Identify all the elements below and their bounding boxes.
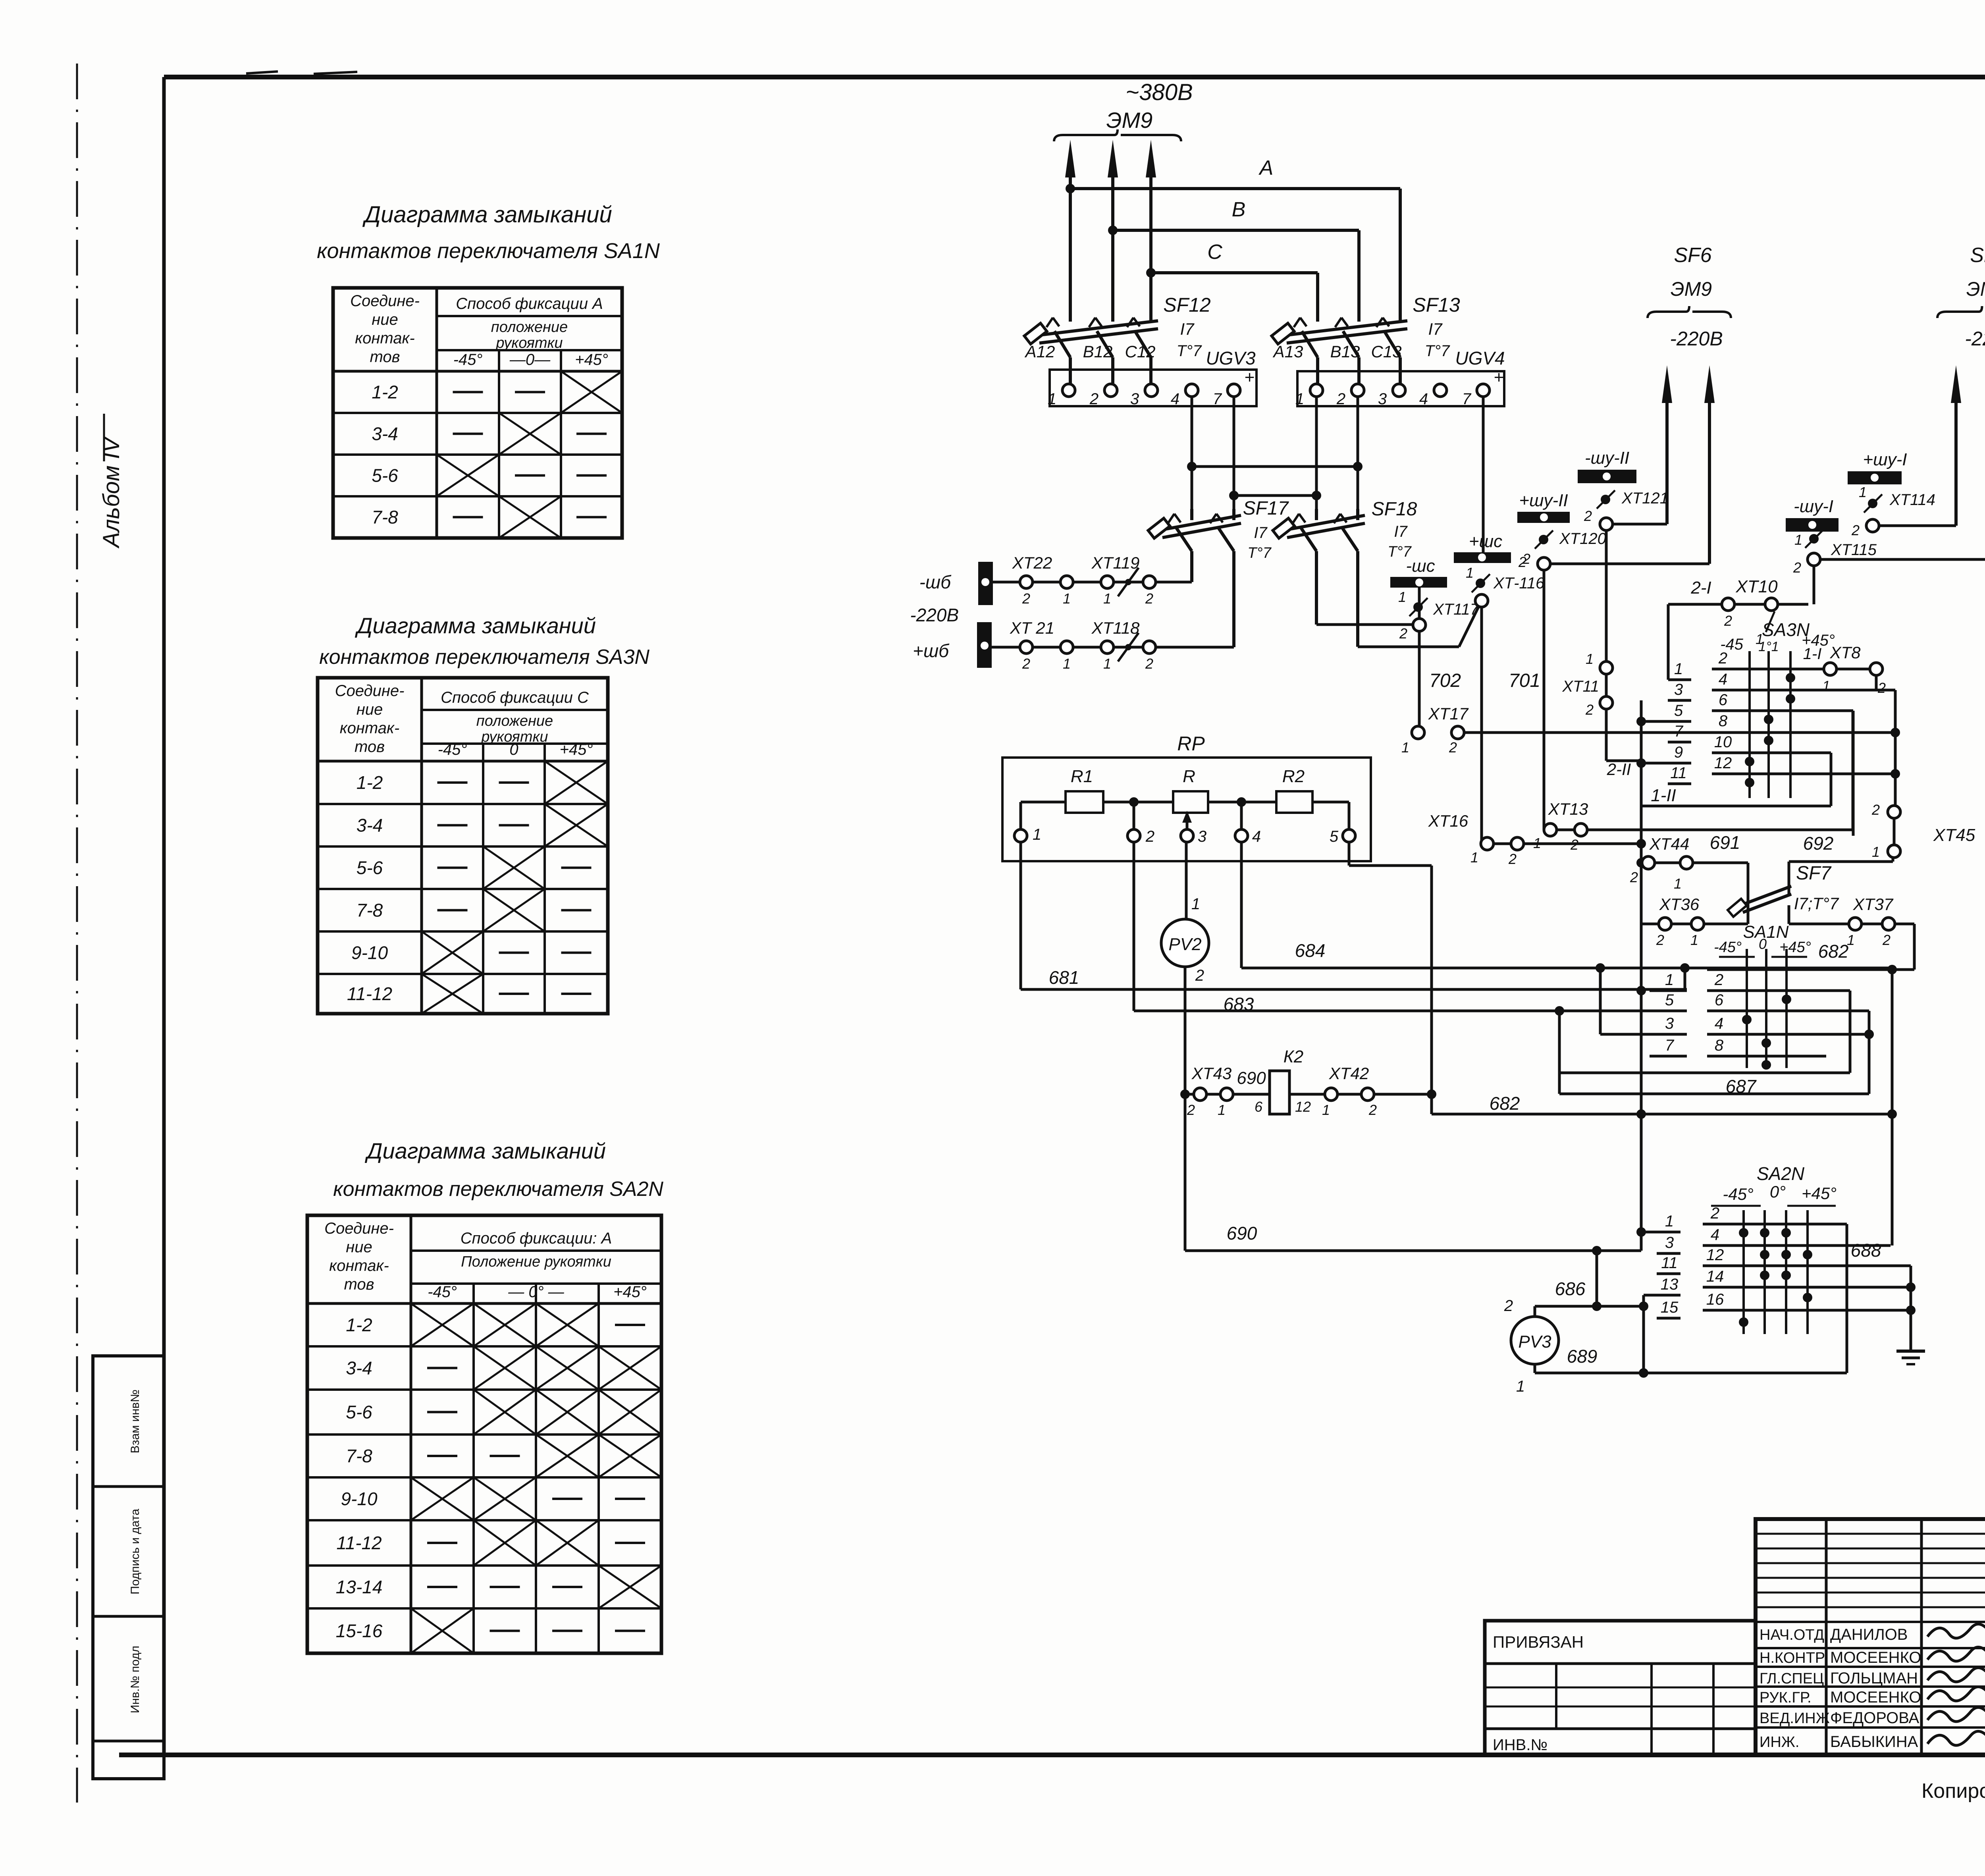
svg-text:ние: ние <box>372 311 398 328</box>
svg-text:1: 1 <box>1063 656 1071 672</box>
wire 691 to SF7 <box>1747 863 1750 893</box>
SA3N row 11-12 <box>1712 773 1895 775</box>
title block left table columns <box>1825 1519 1828 1755</box>
svg-text:В12: В12 <box>1083 342 1113 361</box>
UGV3 terminal 4 <box>1185 384 1198 397</box>
UGV3 terminal 3 <box>1145 384 1158 397</box>
svg-text:2: 2 <box>1630 869 1638 885</box>
svg-text:2: 2 <box>1195 967 1204 984</box>
resistor block RP outline <box>1002 758 1371 861</box>
svg-text:692: 692 <box>1803 833 1834 854</box>
wire SF18 left pole to ХТ117 <box>1316 623 1414 626</box>
svg-text:2: 2 <box>1187 1102 1195 1118</box>
svg-text:1: 1 <box>1822 678 1830 694</box>
table header lines <box>437 315 622 317</box>
svg-text:ХТ-116: ХТ-116 <box>1493 575 1545 592</box>
svg-text:4: 4 <box>1715 1015 1723 1032</box>
wire 701 vertical <box>1480 606 1483 844</box>
SA1N row2 drop to 687 <box>1849 991 1852 1073</box>
svg-text:13: 13 <box>1661 1276 1679 1293</box>
svg-text:2: 2 <box>1145 590 1153 607</box>
svg-text:0: 0 <box>509 741 518 758</box>
svg-text:ние: ние <box>357 701 383 718</box>
svg-text:Соедине-: Соедине- <box>335 682 405 700</box>
svg-text:2-II: 2-II <box>1607 760 1631 779</box>
svg-text:11-12: 11-12 <box>347 983 392 1004</box>
SA2N rows <box>1657 1231 1681 1234</box>
svg-text:ХТ118: ХТ118 <box>1091 619 1140 637</box>
svg-text:3: 3 <box>1198 828 1206 845</box>
wire B drop to SF13 <box>1357 230 1361 322</box>
svg-text:1: 1 <box>1401 739 1409 756</box>
title block thin rows top <box>1756 1533 1985 1535</box>
svg-text:15-16: 15-16 <box>336 1621 383 1641</box>
svg-text:2: 2 <box>1399 625 1407 642</box>
svg-text:1: 1 <box>1872 844 1880 860</box>
svg-text:2: 2 <box>1793 559 1801 576</box>
svg-text:Диаграмма замыканий: Диаграмма замыканий <box>355 613 596 638</box>
svg-text:1: 1 <box>1103 590 1111 607</box>
UGV4 terminal 2 <box>1351 384 1364 397</box>
svg-text:Положение рукоятки: Положение рукоятки <box>461 1253 611 1270</box>
wire B <box>1113 229 1359 232</box>
svg-text:9: 9 <box>1674 744 1683 761</box>
SA3N left stubs <box>1668 699 1691 702</box>
svg-text:684: 684 <box>1295 940 1326 961</box>
svg-text:2: 2 <box>1656 932 1664 948</box>
title block signature rows <box>1756 1621 1985 1623</box>
UGV3 terminal 7 <box>1228 384 1240 397</box>
svg-text:ХТ36: ХТ36 <box>1659 895 1700 914</box>
terminal ХТ119 <box>1101 576 1114 588</box>
wire from RP-5 <box>1348 841 1351 866</box>
svg-text:UGV3: UGV3 <box>1206 348 1256 368</box>
resistor R <box>1173 791 1208 813</box>
svg-text:T°7: T°7 <box>1425 342 1450 360</box>
circuit breaker SF7 <box>1747 893 1750 924</box>
svg-text:+шу-I: +шу-I <box>1863 450 1907 469</box>
wire branch to UGV4-1 <box>1234 494 1316 497</box>
UGV4 terminal 7 <box>1477 384 1490 397</box>
svg-text:Взам инв№: Взам инв№ <box>129 1390 142 1454</box>
svg-text:контак-: контак- <box>340 719 399 737</box>
SA3N moving contact lines <box>1748 651 1751 798</box>
table column lines <box>436 288 438 538</box>
svg-text:-45°: -45° <box>1714 939 1742 956</box>
svg-text:SF18: SF18 <box>1372 499 1417 520</box>
loop wire below 687 <box>1559 1093 1869 1095</box>
drawing frame border <box>164 75 1985 79</box>
wire C <box>1151 271 1318 274</box>
svg-text:2: 2 <box>1022 590 1030 607</box>
svg-text:1: 1 <box>1033 826 1041 843</box>
circuit breaker SF13 <box>1287 329 1407 343</box>
svg-text:ХТ22: ХТ22 <box>1012 553 1052 572</box>
SA2N closure dots <box>1739 1228 1748 1238</box>
svg-text:7: 7 <box>1462 390 1472 408</box>
wire 692 <box>1789 860 1893 863</box>
svg-text:-220В: -220В <box>1670 328 1723 350</box>
wire ХТ115 to SF5 right arrow <box>1819 558 1985 561</box>
svg-text:ДАНИЛОВ: ДАНИЛОВ <box>1830 1626 1908 1643</box>
svg-text:контактов переключателя SA3N: контактов переключателя SA3N <box>319 646 649 669</box>
svg-text:5-6: 5-6 <box>357 858 383 878</box>
svg-text:1-II: 1-II <box>1651 786 1676 805</box>
svg-text:-45°: -45° <box>453 351 483 368</box>
SA1N rows <box>1650 989 1687 992</box>
svg-text:+шс: +шс <box>1469 532 1502 551</box>
table outer border <box>333 288 622 538</box>
svg-text:1-I: 1-I <box>1803 645 1822 663</box>
svg-text:ИНВ.№: ИНВ.№ <box>1493 1736 1548 1754</box>
svg-text:1: 1 <box>1586 651 1594 667</box>
svg-text:ИНЖ.: ИНЖ. <box>1760 1734 1799 1751</box>
svg-text:7: 7 <box>1665 1037 1675 1054</box>
svg-text:10: 10 <box>1714 733 1732 751</box>
svg-text:7-8: 7-8 <box>346 1446 372 1466</box>
resistor R2 <box>1276 791 1312 813</box>
terminal ХТ22 <box>1020 576 1033 588</box>
svg-text:16: 16 <box>1706 1291 1724 1308</box>
svg-text:ХТ 21: ХТ 21 <box>1010 619 1054 637</box>
SA3N row 3-4 and ХТ8 drop <box>1875 675 1878 690</box>
svg-text:4: 4 <box>1419 390 1428 408</box>
svg-text:12: 12 <box>1295 1099 1311 1115</box>
svg-text:3-4: 3-4 <box>357 815 383 836</box>
UGV4 terminal 1 <box>1310 384 1323 397</box>
svg-text:1: 1 <box>1470 849 1478 866</box>
svg-text:Способ фиксации С: Способ фиксации С <box>441 689 589 706</box>
brace SF6 <box>1648 312 1731 318</box>
svg-text:ГОЛЬЦМАН: ГОЛЬЦМАН <box>1830 1670 1918 1687</box>
svg-text:1: 1 <box>1218 1102 1226 1118</box>
svg-text:ХТ11: ХТ11 <box>1562 678 1599 695</box>
svg-text:— 0° —: — 0° — <box>508 1283 564 1301</box>
svg-text:3: 3 <box>1674 681 1683 698</box>
wire 684 drop to SA1N <box>1684 968 1686 991</box>
svg-text:2: 2 <box>1585 702 1594 718</box>
voltmeter PV3 <box>1511 1317 1559 1364</box>
svg-text:Альбом IV: Альбом IV <box>98 435 124 549</box>
svg-text:11: 11 <box>1670 764 1687 782</box>
svg-text:С13: С13 <box>1371 342 1401 361</box>
svg-text:ХТ42: ХТ42 <box>1329 1064 1369 1083</box>
svg-text:15: 15 <box>1661 1299 1679 1316</box>
wire UGV4-2 link <box>1192 465 1358 468</box>
svg-text:1: 1 <box>1295 390 1304 408</box>
terminal strip UGV3 <box>1050 370 1257 406</box>
svg-text:7: 7 <box>1213 390 1222 408</box>
svg-text:1: 1 <box>1859 484 1867 500</box>
wire K2 row <box>1185 1093 1270 1096</box>
wire UGV3-7 down to SF17 right <box>1233 397 1235 509</box>
svg-text:SF13: SF13 <box>1413 294 1460 316</box>
svg-text:ХТ120: ХТ120 <box>1559 530 1606 548</box>
table outer border <box>307 1215 661 1653</box>
svg-text:ХТ43: ХТ43 <box>1191 1064 1231 1083</box>
svg-text:9-10: 9-10 <box>341 1488 377 1509</box>
svg-text:681: 681 <box>1049 967 1079 988</box>
svg-text:ЭМ9: ЭМ9 <box>1106 108 1153 133</box>
terminal ХТ44 <box>1641 862 1748 864</box>
svg-text:A: A <box>1258 156 1274 179</box>
svg-text:686: 686 <box>1555 1278 1586 1299</box>
wire ХТ121 down to ХТ11 <box>1605 530 1608 662</box>
SA3N row 1-2 <box>1712 668 1824 671</box>
SA3N stub 5 extended <box>1641 720 1691 723</box>
RP terminal 2 <box>1127 829 1140 842</box>
svg-text:SA2N: SA2N <box>1757 1163 1805 1184</box>
wire ХТ115 down to ХТ10 <box>1813 565 1815 604</box>
svg-text:690: 690 <box>1227 1223 1257 1244</box>
svg-text:Соедине-: Соедине- <box>324 1220 394 1237</box>
bus bar -шб <box>978 562 993 605</box>
svg-text:ХТ8: ХТ8 <box>1829 643 1861 662</box>
circuit breaker SF6 arrows <box>1665 381 1669 524</box>
svg-text:С12: С12 <box>1125 342 1155 361</box>
RP terminal 4 <box>1235 829 1248 842</box>
svg-text:682: 682 <box>1818 941 1849 962</box>
svg-text:1: 1 <box>1674 660 1683 678</box>
svg-text:-220В: -220В <box>1965 328 1985 350</box>
svg-text:3: 3 <box>1665 1234 1674 1251</box>
svg-text:5-6: 5-6 <box>372 465 398 486</box>
svg-text:~380В: ~380В <box>1125 79 1193 105</box>
svg-text:Соедине-: Соедине- <box>350 292 420 310</box>
SA1N row6 drop <box>1868 1011 1871 1094</box>
svg-text:-45°: -45° <box>1723 1185 1754 1203</box>
left feeder vertical <box>1640 700 1643 1251</box>
wire 682 lower run <box>1432 1113 1892 1116</box>
svg-text:5: 5 <box>1330 828 1339 845</box>
svg-text:ХТ13: ХТ13 <box>1548 800 1588 818</box>
svg-text:702: 702 <box>1429 670 1461 691</box>
svg-text:+шб: +шб <box>913 640 950 661</box>
svg-text:2: 2 <box>1336 390 1345 408</box>
SA1N header bars <box>1719 956 1755 958</box>
svg-text:В13: В13 <box>1330 342 1360 361</box>
wire ХТ37 corner down to 682 <box>1913 924 1916 970</box>
svg-text:Инв.№ подл: Инв.№ подл <box>129 1646 142 1713</box>
table column lines <box>420 678 423 1014</box>
svg-text:7-8: 7-8 <box>357 900 383 921</box>
wire 690 riser to 686 <box>1596 1251 1598 1306</box>
svg-text:14: 14 <box>1706 1268 1724 1285</box>
wire 2-I with ХТ10 <box>1668 603 1808 606</box>
relay coil K2 <box>1270 1071 1289 1114</box>
UGV4 terminal 4 <box>1434 384 1447 397</box>
svg-text:I7: I7 <box>1394 523 1408 540</box>
svg-text:SF12: SF12 <box>1163 294 1211 316</box>
bus bar +шс <box>1454 552 1511 563</box>
RP terminal 1 <box>1014 829 1027 842</box>
svg-text:1-2: 1-2 <box>357 772 383 793</box>
svg-text:2: 2 <box>1145 656 1153 672</box>
svg-text:ХТ119: ХТ119 <box>1091 553 1140 572</box>
wire ХТ121 to SF6 left arrow <box>1612 523 1667 526</box>
wire ХТ114 to SF5 left arrow <box>1878 524 1956 527</box>
svg-text:691: 691 <box>1710 832 1740 853</box>
terminal ХТ120 <box>1539 535 1548 544</box>
svg-text:5-6: 5-6 <box>346 1402 372 1423</box>
svg-text:контак-: контак- <box>355 330 414 347</box>
svg-text:2: 2 <box>1368 1102 1377 1118</box>
svg-text:11-12: 11-12 <box>336 1533 382 1553</box>
table column lines <box>410 1215 412 1653</box>
table row lines <box>307 1345 661 1348</box>
svg-text:ХТ117: ХТ117 <box>1433 601 1480 618</box>
svg-text:+45°: +45° <box>1802 1184 1837 1203</box>
svg-text:2: 2 <box>1851 522 1860 538</box>
wire ХТ11 column <box>1600 661 1613 674</box>
svg-text:ХТ114: ХТ114 <box>1889 491 1935 509</box>
svg-text:2: 2 <box>1089 390 1098 408</box>
SA3N row6 right drop <box>1852 711 1855 836</box>
wire 683 from RP-2 <box>1133 841 1135 1011</box>
wire 683 drop to 687 <box>1558 1011 1561 1094</box>
svg-text:положение: положение <box>491 319 568 335</box>
terminal ХТ42 <box>1289 1093 1431 1096</box>
RP terminal 5 <box>1343 829 1355 842</box>
svg-text:1: 1 <box>1398 589 1406 605</box>
node A junction <box>1066 184 1075 193</box>
svg-text:1: 1 <box>1665 1213 1674 1230</box>
circuit breaker SF12 <box>1039 329 1158 343</box>
svg-text:—0—: —0— <box>509 351 551 368</box>
wire 687 <box>1559 1072 1850 1074</box>
svg-text:I7: I7 <box>1428 320 1443 338</box>
terminal ХТ43 <box>1194 1088 1206 1101</box>
wire 689 <box>1534 1363 1536 1373</box>
wire 2-I drop to SA3N contact 1 <box>1667 604 1670 680</box>
svg-text:6: 6 <box>1715 991 1724 1009</box>
wire 686 riser to SA2N 13 <box>1642 1295 1645 1373</box>
UGV3 terminal 2 <box>1104 384 1117 397</box>
svg-text:I7: I7 <box>1180 320 1195 338</box>
node B junction <box>1108 226 1118 235</box>
wire 684 to SA1N row 3-4 <box>1599 968 1602 1034</box>
brace under supply label <box>1054 135 1181 141</box>
svg-text:контак-: контак- <box>329 1257 389 1274</box>
svg-text:2: 2 <box>1714 971 1723 989</box>
wire -шб to SF17 <box>993 581 1192 584</box>
circuit breaker SF5 arrows <box>1954 381 1958 526</box>
svg-text:ЭМ9: ЭМ9 <box>1671 278 1712 300</box>
svg-text:2: 2 <box>1871 802 1880 818</box>
svg-text:3-4: 3-4 <box>346 1358 372 1379</box>
svg-text:3: 3 <box>1130 390 1139 408</box>
SA3N right vertical V1 with ХТ45 <box>1894 690 1897 806</box>
wire +шб to SF17 <box>992 646 1234 649</box>
circuit breaker SF17 <box>1162 523 1241 538</box>
ground vertical <box>1910 1266 1912 1351</box>
svg-text:Диаграмма замыканий: Диаграмма замыканий <box>362 202 612 228</box>
disconnect slash on ХТ118 <box>1118 633 1139 661</box>
svg-text:1: 1 <box>1322 1102 1330 1118</box>
terminal ХТ36 <box>1641 923 1748 925</box>
phase arrow 3 <box>1149 156 1152 322</box>
phase arrow 1 <box>1069 156 1072 322</box>
node link to SF18 right pole <box>1353 462 1363 471</box>
SA3N row 5-6 <box>1712 710 1853 712</box>
scan marks on top border <box>246 71 278 73</box>
svg-text:4: 4 <box>1171 390 1179 408</box>
SA2N row2 right drop to 689 <box>1846 1224 1848 1373</box>
svg-text:PV3: PV3 <box>1518 1332 1551 1352</box>
circuit breaker SF18 <box>1287 523 1365 538</box>
wire UGV3-4 down to SF17 <box>1191 397 1193 509</box>
wire 2-II link <box>1606 760 1641 762</box>
svg-text:+45°: +45° <box>560 741 593 758</box>
svg-text:SF17: SF17 <box>1243 498 1289 519</box>
wire 1-II <box>1641 805 1831 808</box>
svg-text:2-I: 2-I <box>1690 578 1711 598</box>
ground symbol <box>1896 1350 1925 1353</box>
table header lines <box>411 1249 661 1252</box>
voltmeter PV2 <box>1161 919 1209 967</box>
svg-text:Диаграмма замыканий: Диаграмма замыканий <box>364 1138 606 1163</box>
wire ХТ16 line <box>1482 843 1641 845</box>
SA3N stub 1 line <box>1668 679 1691 681</box>
wire ХТ13 riser to row 5-6 <box>1852 711 1854 830</box>
svg-text:12: 12 <box>1714 754 1732 772</box>
UGV4 terminal 3 <box>1393 384 1405 397</box>
SA1N closure dots <box>1782 995 1791 1004</box>
svg-text:7: 7 <box>1674 723 1684 740</box>
bus bar -шу-II <box>1578 470 1636 483</box>
svg-text:-шс: -шс <box>1406 556 1435 576</box>
node UGV3-4 and UGV4-2 junction <box>1187 462 1197 471</box>
wire 686 <box>1534 1306 1536 1317</box>
svg-text:1: 1 <box>1665 971 1674 989</box>
title block signature scribbles <box>1927 1624 1985 1638</box>
svg-text:13-14: 13-14 <box>336 1577 383 1597</box>
wire ХТ120 down to ХТ13 <box>1543 569 1546 830</box>
svg-text:R1: R1 <box>1071 767 1093 786</box>
svg-text:Н.КОНТР: Н.КОНТР <box>1760 1650 1825 1666</box>
wire PV2 down <box>1184 967 1187 1094</box>
svg-text:3: 3 <box>1378 390 1387 408</box>
svg-text:4: 4 <box>1711 1226 1719 1244</box>
svg-text:T°7: T°7 <box>1177 342 1202 360</box>
svg-text:1: 1 <box>1191 895 1200 913</box>
node C junction <box>1146 268 1156 278</box>
svg-text:1-2: 1-2 <box>346 1315 372 1335</box>
svg-text:1: 1 <box>1466 565 1474 581</box>
SA2N moving contact lines <box>1742 1210 1745 1334</box>
long vertical 682 drop to SA2N <box>1891 970 1894 1246</box>
svg-text:ХТ121: ХТ121 <box>1621 490 1669 507</box>
terminal ХТ121 <box>1601 495 1610 504</box>
terminal ХТ37 <box>1789 923 1914 925</box>
svg-text:2: 2 <box>1022 656 1030 672</box>
svg-text:РУК.ГР.: РУК.ГР. <box>1760 1689 1812 1706</box>
svg-text:К2: К2 <box>1284 1047 1303 1066</box>
svg-text:2: 2 <box>1584 508 1592 524</box>
svg-text:ХТ16: ХТ16 <box>1428 812 1469 830</box>
svg-text:6: 6 <box>1255 1099 1263 1115</box>
svg-text:+45°: +45° <box>1779 939 1811 956</box>
svg-text:3-4: 3-4 <box>372 424 398 444</box>
table row lines <box>318 803 608 805</box>
svg-text:положение: положение <box>476 713 553 729</box>
svg-text:6: 6 <box>1719 691 1728 709</box>
svg-text:1: 1 <box>1103 656 1111 672</box>
terminal ХТ21 <box>1020 641 1033 654</box>
svg-text:ХТ10: ХТ10 <box>1735 577 1778 596</box>
svg-text:-шу-I: -шу-I <box>1794 497 1833 516</box>
svg-text:5: 5 <box>1674 702 1683 719</box>
